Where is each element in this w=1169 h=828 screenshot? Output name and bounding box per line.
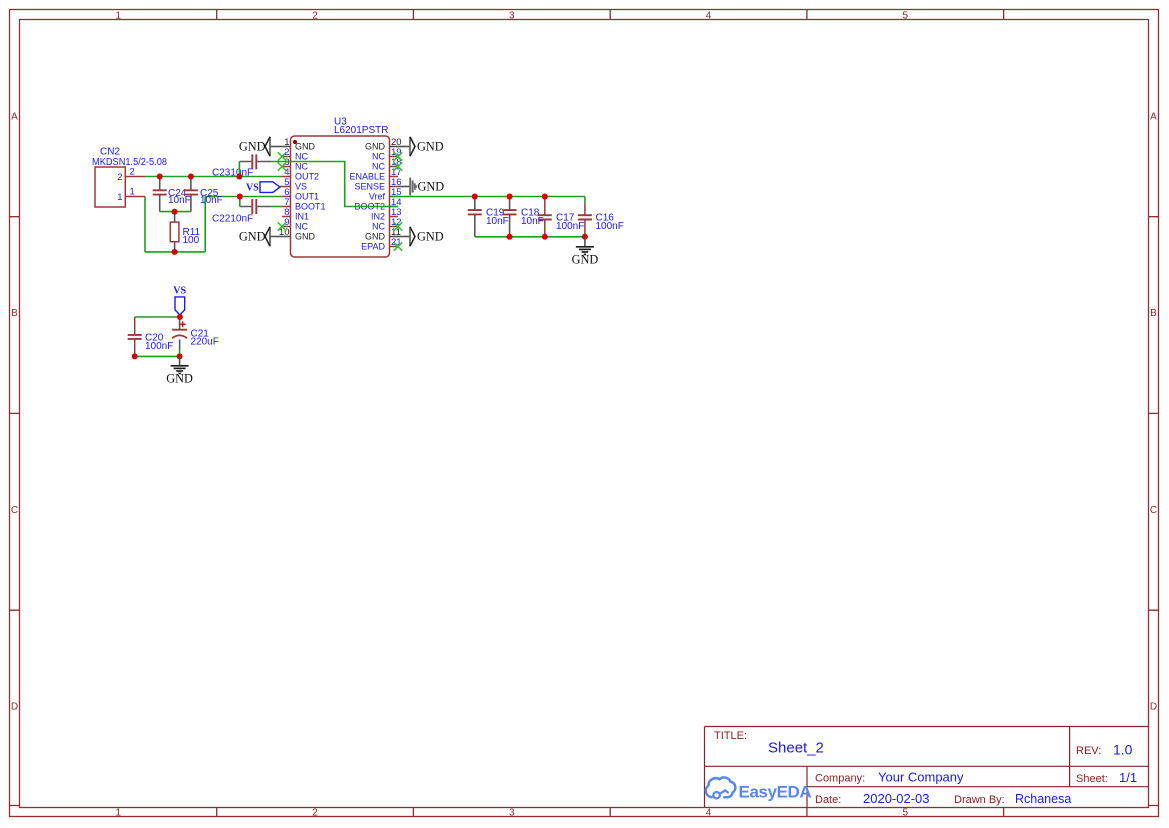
- svg-text:C2210nF: C2210nF: [212, 214, 253, 225]
- svg-text:100: 100: [183, 235, 200, 246]
- svg-text:100nF: 100nF: [596, 221, 624, 232]
- junction dots VS group: [132, 314, 183, 359]
- svg-text:100nF: 100nF: [556, 221, 584, 232]
- svg-text:Date:: Date:: [815, 794, 841, 806]
- capacitor C18: [503, 197, 544, 237]
- svg-text:GND: GND: [295, 142, 316, 152]
- svg-text:5: 5: [903, 10, 909, 21]
- svg-text:2: 2: [117, 172, 122, 183]
- row labels right: [1150, 112, 1157, 713]
- svg-text:GND: GND: [239, 140, 266, 154]
- svg-text:IN1: IN1: [295, 212, 309, 222]
- wire bottom net: [145, 251, 205, 253]
- EasyEDA logo cloud icon: [706, 777, 736, 798]
- svg-text:NC: NC: [372, 222, 385, 232]
- svg-text:Sheet_2: Sheet_2: [768, 740, 824, 757]
- svg-text:4: 4: [706, 808, 712, 819]
- svg-text:A: A: [1150, 112, 1157, 123]
- svg-text:100nF: 100nF: [145, 341, 173, 352]
- capacitor C20: [128, 317, 174, 356]
- svg-text:C: C: [11, 505, 18, 516]
- U3 pin 10 gray stub: [282, 236, 291, 238]
- wire right caps bottom: [475, 236, 585, 238]
- NC cross pin 9: [278, 222, 286, 230]
- capacitor C22: [212, 199, 272, 225]
- svg-text:NC: NC: [372, 152, 385, 162]
- junction dots left group: [157, 174, 243, 255]
- GND flag at pin 10: [239, 227, 282, 246]
- junction dots right caps: [472, 194, 588, 240]
- svg-text:10nF: 10nF: [200, 195, 223, 206]
- svg-text:1: 1: [130, 187, 135, 198]
- svg-text:GND: GND: [418, 180, 445, 194]
- svg-text:GND: GND: [239, 230, 266, 244]
- wire Vref net: [391, 196, 585, 198]
- capacitor C17: [538, 197, 585, 237]
- svg-text:B: B: [11, 308, 18, 319]
- title block frame: [705, 727, 1149, 808]
- svg-text:Rchanesa: Rchanesa: [1015, 792, 1071, 806]
- svg-text:NC: NC: [372, 162, 385, 172]
- svg-text:OUT1: OUT1: [295, 192, 319, 202]
- VS net flag (power entry): [173, 286, 186, 316]
- GND flag at pin 16 (earth style): [398, 178, 444, 196]
- wire C23 left branch: [238, 162, 240, 177]
- wire VS to caps: [135, 315, 180, 317]
- svg-text:L6201PSTR: L6201PSTR: [334, 125, 388, 136]
- U3 pin 20 gray stub: [390, 146, 399, 148]
- svg-text:2: 2: [312, 10, 318, 21]
- svg-text:SENSE: SENSE: [354, 182, 385, 192]
- svg-text:1: 1: [116, 808, 122, 819]
- ground below C16: [572, 237, 599, 267]
- resistor R11: [170, 212, 200, 252]
- row labels left: [11, 112, 18, 713]
- wire C22 left branch: [239, 197, 241, 207]
- svg-text:GND: GND: [417, 230, 444, 244]
- svg-text:10nF: 10nF: [486, 216, 509, 227]
- svg-text:VS: VS: [173, 286, 186, 297]
- svg-text:GND: GND: [365, 232, 386, 242]
- svg-text:1: 1: [116, 10, 122, 21]
- svg-text:NC: NC: [295, 152, 308, 162]
- svg-text:EPAD: EPAD: [361, 242, 385, 252]
- svg-text:GND: GND: [572, 253, 599, 267]
- svg-text:VS: VS: [295, 182, 307, 192]
- svg-text:4: 4: [706, 10, 712, 21]
- svg-text:GND: GND: [166, 372, 193, 386]
- U3 pin 11 gray stub: [390, 236, 399, 238]
- capacitor C25: [184, 177, 223, 212]
- svg-text:Company:: Company:: [815, 773, 865, 785]
- NC cross pin 12: [394, 222, 402, 230]
- column labels bottom: [116, 808, 909, 819]
- svg-text:3: 3: [509, 808, 515, 819]
- row tick marks left: [10, 217, 20, 806]
- svg-text:3: 3: [509, 10, 515, 21]
- GND flag at pin 20: [398, 137, 444, 156]
- wire Vref corner down: [584, 197, 586, 237]
- CN2 pin 1 stub: [125, 196, 145, 198]
- GND flag at pin 1: [239, 137, 282, 156]
- U3 right pin numbers: [391, 137, 402, 248]
- svg-text:A: A: [11, 112, 18, 123]
- NC cross pin 18: [394, 162, 402, 170]
- svg-text:Your Company: Your Company: [878, 770, 964, 785]
- row tick marks right: [1149, 217, 1159, 806]
- svg-text:Vref: Vref: [369, 192, 386, 202]
- op-amp U3 body: [291, 136, 390, 257]
- svg-text:220uF: 220uF: [191, 337, 219, 348]
- svg-text:BOOT1: BOOT1: [295, 202, 326, 212]
- U3 left pin stubs (pins 2-9): [282, 157, 291, 227]
- column labels top: [116, 10, 909, 21]
- svg-text:REV:: REV:: [1076, 745, 1101, 757]
- svg-text:NC: NC: [295, 162, 308, 172]
- U3 right pin names: [349, 142, 385, 252]
- U3 right pin stubs (pins 19-12, 21): [390, 157, 399, 247]
- U3 pin-1 indicator dot: [293, 140, 297, 144]
- svg-text:GND: GND: [365, 142, 386, 152]
- VS net flag at pin 5: [246, 182, 282, 194]
- svg-text:IN2: IN2: [371, 212, 385, 222]
- U3 left pin names: [295, 142, 326, 242]
- capacitor C16: [578, 204, 624, 233]
- EasyEDA logo: [706, 777, 812, 801]
- capacitor C24: [153, 177, 191, 212]
- capacitor C19: [468, 197, 509, 237]
- svg-text:1/1: 1/1: [1119, 770, 1137, 785]
- CN2 inside pin numbers: [117, 172, 122, 203]
- svg-text:GND: GND: [417, 140, 444, 154]
- wire up to OUT1: [204, 197, 206, 252]
- column tick marks top: [217, 10, 1004, 20]
- svg-text:2: 2: [130, 167, 135, 178]
- svg-text:EasyEDA: EasyEDA: [739, 783, 812, 802]
- svg-text:TITLE:: TITLE:: [714, 730, 747, 742]
- svg-text:1: 1: [117, 192, 122, 203]
- svg-text:2: 2: [312, 808, 318, 819]
- svg-text:2020-02-03: 2020-02-03: [863, 791, 930, 806]
- NC cross pin 19: [394, 152, 402, 160]
- wire OUT1 net: [205, 196, 282, 198]
- column tick marks bottom: [217, 808, 1004, 817]
- svg-text:GND: GND: [295, 232, 316, 242]
- NC cross pin 21 EPAD: [394, 242, 402, 250]
- svg-text:10nF: 10nF: [168, 195, 191, 206]
- capacitor C21 (polarized): [172, 317, 219, 356]
- svg-text:21: 21: [391, 237, 402, 248]
- svg-text:C: C: [1150, 505, 1157, 516]
- svg-text:D: D: [11, 702, 18, 713]
- CN2 pin 2 stub: [125, 176, 145, 178]
- svg-text:C2310nF: C2310nF: [212, 167, 253, 178]
- wire C22 to BOOT1: [272, 206, 282, 208]
- svg-text:NC: NC: [295, 222, 308, 232]
- svg-text:10nF: 10nF: [521, 216, 544, 227]
- CN2 outside pin numbers: [130, 167, 135, 198]
- svg-text:B: B: [1150, 308, 1157, 319]
- connector CN2 body: [95, 167, 125, 207]
- svg-text:OUT2: OUT2: [295, 172, 319, 182]
- svg-text:Sheet:: Sheet:: [1076, 773, 1108, 785]
- svg-text:VS: VS: [246, 182, 259, 193]
- svg-text:ENABLE: ENABLE: [349, 172, 385, 182]
- NC cross pin 3: [278, 162, 286, 170]
- wire C20 C21 bottoms: [135, 355, 180, 357]
- wire C23 to BOOT2: [272, 162, 398, 207]
- wire OUT2 net: [145, 176, 282, 178]
- GND flag at pin 11: [398, 227, 444, 246]
- U3 pin 1 gray stub: [282, 146, 291, 148]
- NC cross pin 2: [278, 152, 286, 160]
- ground below C21: [166, 356, 193, 385]
- svg-text:1.0: 1.0: [1113, 742, 1133, 758]
- wire cap bottoms: [160, 211, 191, 213]
- capacitor C23: [212, 154, 272, 178]
- svg-text:5: 5: [903, 808, 909, 819]
- svg-text:Drawn By:: Drawn By:: [954, 794, 1005, 806]
- U3 left pin numbers: [279, 137, 290, 238]
- svg-text:D: D: [1150, 702, 1157, 713]
- wire CN2 pin1 down: [144, 197, 146, 252]
